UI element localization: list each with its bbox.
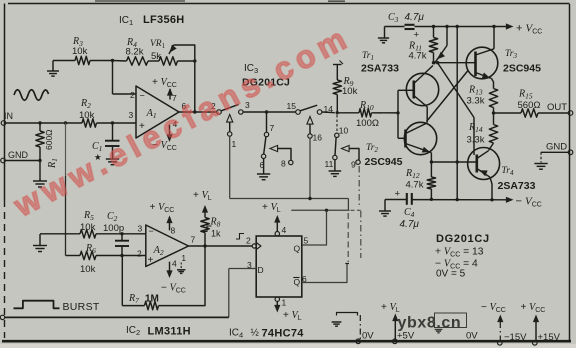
svg-text:3: 3	[129, 110, 134, 120]
svg-text:LM311H: LM311H	[148, 326, 191, 338]
svg-text:4: 4	[172, 259, 177, 269]
svg-text:½: ½	[251, 328, 260, 339]
svg-text:4.7k: 4.7k	[406, 180, 424, 191]
svg-text:+: +	[414, 30, 420, 41]
svg-text:10k: 10k	[342, 86, 358, 97]
svg-text:10: 10	[339, 126, 349, 136]
svg-text:10k: 10k	[80, 264, 96, 275]
svg-text:7: 7	[270, 123, 275, 133]
svg-text:8: 8	[281, 159, 286, 169]
svg-text:2SC945: 2SC945	[365, 156, 403, 168]
svg-text:3: 3	[138, 224, 143, 234]
svg-text:4.7μ: 4.7μ	[405, 12, 425, 23]
svg-text:2SA733: 2SA733	[498, 180, 536, 192]
svg-text:2SA733: 2SA733	[361, 63, 399, 75]
svg-text:−: −	[140, 91, 145, 101]
svg-text:IN: IN	[4, 111, 13, 121]
svg-text:10k: 10k	[80, 222, 96, 233]
svg-text:5k: 5k	[151, 51, 161, 62]
svg-text:8.2k: 8.2k	[126, 47, 144, 58]
svg-text:11: 11	[325, 159, 334, 169]
svg-text:3.3k: 3.3k	[467, 135, 485, 146]
svg-text:3.3k: 3.3k	[467, 96, 485, 107]
svg-text:LF356H: LF356H	[143, 14, 185, 26]
svg-text:2: 2	[246, 236, 251, 246]
svg-text:600Ω: 600Ω	[44, 129, 54, 150]
svg-text:10k: 10k	[72, 46, 88, 57]
svg-text:5: 5	[304, 236, 309, 246]
svg-text:−: −	[149, 226, 154, 236]
svg-text:1: 1	[232, 139, 237, 149]
svg-text:Q: Q	[294, 244, 301, 254]
svg-text:15: 15	[287, 101, 297, 111]
svg-text:OUT: OUT	[547, 102, 567, 113]
svg-text:Q: Q	[294, 277, 301, 287]
svg-text:1M: 1M	[145, 294, 159, 305]
svg-text:0V: 0V	[466, 331, 478, 342]
svg-text:100Ω: 100Ω	[356, 118, 379, 129]
svg-text:100p: 100p	[103, 223, 124, 234]
svg-text:DG201CJ: DG201CJ	[436, 233, 490, 245]
svg-text:1: 1	[182, 254, 187, 263]
svg-text:0V: 0V	[362, 331, 374, 342]
svg-text:8: 8	[171, 226, 176, 236]
svg-text:9: 9	[351, 160, 356, 170]
svg-text:GND: GND	[546, 142, 567, 153]
svg-text:16: 16	[313, 133, 323, 143]
svg-text:7: 7	[172, 93, 177, 103]
svg-text:2: 2	[137, 249, 142, 259]
svg-text:+: +	[148, 255, 154, 266]
svg-text:1: 1	[282, 298, 287, 308]
svg-text:4: 4	[282, 225, 287, 235]
svg-text:10k: 10k	[79, 110, 95, 121]
svg-text:1k: 1k	[211, 229, 221, 239]
svg-text:560Ω: 560Ω	[518, 100, 541, 111]
svg-text:ybx8.cn: ybx8.cn	[398, 315, 462, 332]
svg-text:0V = 5: 0V = 5	[436, 269, 466, 280]
svg-text:−15V: −15V	[504, 332, 527, 343]
svg-text:+: +	[395, 189, 401, 200]
svg-text:2: 2	[130, 90, 135, 100]
svg-text:+15V: +15V	[538, 332, 561, 343]
svg-text:2SC945: 2SC945	[503, 63, 541, 75]
svg-text:GND: GND	[8, 150, 29, 160]
svg-text:74HC74: 74HC74	[262, 328, 305, 340]
svg-text:+ VCC​ = 13: + VCC​ = 13	[435, 247, 484, 259]
svg-text:BURST: BURST	[63, 301, 100, 313]
svg-text:3: 3	[247, 260, 252, 270]
svg-text:4.7μ: 4.7μ	[400, 219, 420, 230]
svg-text:+5V: +5V	[397, 331, 415, 342]
svg-text:D: D	[258, 265, 264, 275]
svg-text:4.7k: 4.7k	[409, 51, 427, 62]
svg-text:7: 7	[191, 235, 196, 245]
